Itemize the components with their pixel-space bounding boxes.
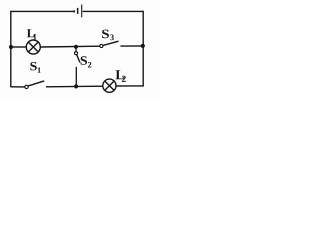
wire middle rail, lamp L1 to switch S3 — [40, 45, 100, 48]
wire bottom-left, corner to switch S1 — [11, 86, 25, 88]
switch S2 (open): pivot and blade — [75, 52, 80, 63]
switch S1 (open): pivot and blade — [25, 81, 44, 89]
wire top-right segment — [83, 10, 144, 12]
wire: S2 branch lower lead to bottom rail — [75, 67, 77, 87]
lamp L2 — [103, 79, 116, 92]
lamp L1 — [26, 40, 40, 54]
switch S3 (open): pivot and blade — [100, 41, 119, 47]
label S2 — [81, 56, 92, 67]
battery cell: short negative plate — [77, 8, 79, 14]
wire top-left segment — [11, 10, 75, 12]
node: left junction of middle rail — [9, 45, 13, 49]
battery cell: long positive plate — [81, 5, 83, 18]
node: S2 branch junction on middle rail — [74, 45, 78, 49]
wire middle rail, switch S3 to right junction — [120, 45, 143, 47]
label S1 — [30, 62, 40, 73]
wire: S2 branch stub below junction — [75, 47, 77, 52]
wire end tick at battery negative lead — [73, 10, 75, 12]
wire left side — [10, 11, 12, 88]
wire bottom-right, lamp L2 to corner — [116, 85, 143, 87]
label L2 — [116, 70, 126, 82]
label L1 — [27, 29, 37, 39]
wire middle rail, junction to lamp L1 — [11, 46, 27, 48]
wire bottom middle, switch S1 to lamp L2 — [46, 85, 103, 88]
node: right junction of middle rail — [141, 44, 145, 48]
wire right side — [142, 11, 144, 87]
node: bottom junction of S2 branch — [74, 84, 78, 88]
label S3 — [102, 30, 114, 41]
